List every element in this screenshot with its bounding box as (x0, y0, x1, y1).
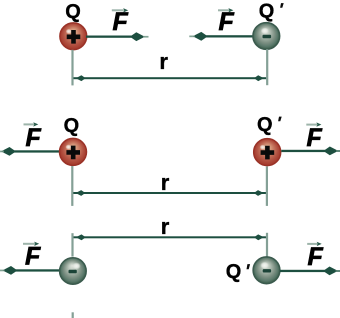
svg-text:Q: Q (65, 1, 81, 23)
force arrow on Q' row2 (pointing right) (281, 147, 340, 156)
plus sign on Q row1 (67, 30, 81, 44)
charge Q' row2: positive red sphere (254, 139, 281, 166)
tick line below Q' row1 (266, 49, 268, 85)
tick line above Q' row3 (266, 233, 268, 257)
force arrow on Q row2 (pointing left) (0, 147, 60, 156)
force arrow on left charge row3 (pointing left) (0, 266, 60, 275)
force vector label F (row 2 right, with over-arrow) (306, 122, 322, 152)
svg-text:r: r (161, 170, 170, 195)
charge Q row1: positive red sphere (60, 23, 87, 50)
minus sign on Q' row3 (263, 269, 271, 272)
svg-text:Q: Q (226, 261, 242, 283)
plus sign on Q' row2 (261, 146, 275, 160)
label Q' (row 2 right charge) (257, 114, 282, 136)
force vector label F (row 2 left, with over-arrow) (24, 122, 42, 152)
charge row3 left: negative green sphere (60, 258, 87, 285)
tick stub below row3 left charge (cropped next row) (72, 312, 74, 318)
svg-text:F: F (113, 8, 129, 36)
svg-text:F: F (219, 8, 235, 36)
force vector label F (row 3 right, with over-arrow) (307, 242, 323, 272)
svg-text:r: r (161, 214, 170, 239)
minus sign on row3 left charge (69, 270, 77, 273)
label Q' (row 3 right charge, at its left) (226, 261, 250, 283)
svg-text:F: F (308, 243, 324, 271)
label Q' (row 1 right charge) (259, 1, 284, 23)
force arrow on Q' row3 (pointing right) (280, 267, 340, 276)
svg-text:F: F (26, 124, 42, 152)
force vector label F (row 3 left, with over-arrow) (23, 242, 41, 271)
svg-text:Q: Q (257, 114, 273, 136)
separation dimension line r row2 (73, 190, 266, 196)
charge Q' row1: negative green sphere (253, 23, 280, 50)
tick line below Q' row2 (266, 166, 268, 206)
charge Q row2: positive red sphere (60, 138, 87, 165)
separation dimension line r row1 (74, 75, 267, 81)
svg-text:F: F (25, 243, 41, 271)
svg-text:Q: Q (259, 1, 275, 23)
svg-text:r: r (159, 49, 168, 74)
minus sign on Q' row1 (263, 35, 272, 39)
force vector label F (row 1 left, with over-arrow) (112, 8, 129, 36)
plus sign on Q row2 (66, 146, 80, 160)
tick line above left charge row3 (71, 233, 73, 256)
tick line below Q row1 (71, 50, 73, 86)
force arrow on Q' row1 (pointing left) (189, 32, 253, 41)
separation dimension line r row3 (74, 234, 267, 240)
tick line below Q row2 (71, 166, 73, 206)
force vector label F (row 1 right, with over-arrow) (218, 8, 235, 36)
force arrow on Q row1 (pointing right) (86, 32, 149, 41)
svg-text:Q: Q (64, 115, 80, 137)
charge Q' row3: negative green sphere (253, 257, 280, 284)
svg-text:F: F (307, 124, 323, 152)
